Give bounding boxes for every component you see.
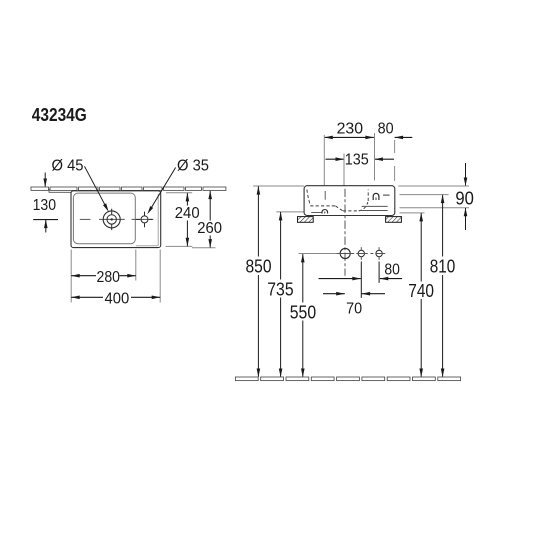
svg-text:400: 400 [105, 291, 130, 308]
svg-text:550: 550 [290, 302, 316, 323]
svg-text:230: 230 [337, 121, 364, 138]
svg-text:Ø 35: Ø 35 [177, 157, 209, 174]
svg-text:Ø 45: Ø 45 [52, 157, 84, 174]
svg-text:130: 130 [33, 197, 57, 214]
svg-text:810: 810 [430, 255, 456, 276]
svg-text:735: 735 [267, 278, 293, 299]
svg-text:280: 280 [97, 269, 121, 286]
svg-text:240: 240 [175, 205, 200, 222]
svg-text:850: 850 [246, 255, 272, 276]
svg-text:43234G: 43234G [32, 105, 87, 125]
svg-text:260: 260 [197, 220, 222, 237]
svg-text:80: 80 [378, 121, 394, 138]
svg-text:135: 135 [345, 152, 369, 169]
svg-text:80: 80 [384, 261, 400, 278]
svg-text:70: 70 [346, 301, 362, 318]
svg-text:90: 90 [455, 187, 474, 208]
svg-text:740: 740 [408, 280, 434, 301]
